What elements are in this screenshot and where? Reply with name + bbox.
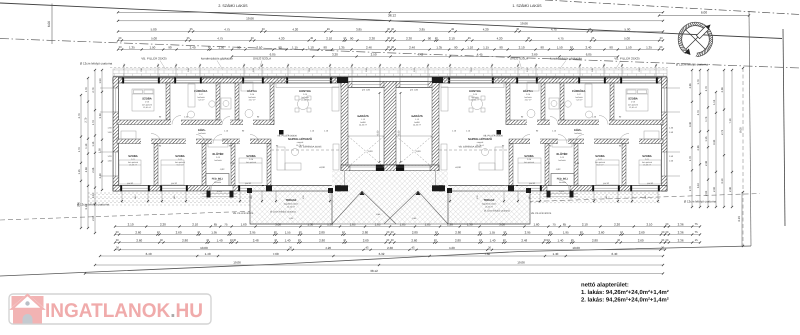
svg-text:SZOBA: SZOBA	[595, 155, 604, 158]
window jamb	[120, 185, 122, 191]
svg-text:75: 75	[552, 223, 556, 227]
pillar 20x20 left	[279, 130, 284, 135]
svg-text:2.36: 2.36	[705, 160, 708, 166]
svg-text:-0,325: -0,325	[558, 190, 565, 193]
svg-text:2.36: 2.36	[697, 145, 700, 151]
dimension chain row 4 partial	[231, 53, 619, 58]
svg-text:7,20 m²: 7,20 m²	[576, 99, 583, 102]
svg-text:pm 1,80: pm 1,80	[362, 89, 371, 92]
svg-text:-0,30: -0,30	[368, 150, 374, 153]
label uvegtegla right	[510, 57, 528, 74]
svg-text:pm 90: pm 90	[127, 182, 134, 185]
svg-text:90: 90	[428, 37, 432, 41]
svg-text:19.06: 19.06	[520, 21, 528, 25]
area text block	[581, 282, 669, 304]
svg-text:GARÁZS: GARÁZS	[411, 114, 423, 118]
site boundary dash-dot top right	[545, 0, 800, 15]
window dim stub bottom	[121, 191, 149, 203]
svg-text:2.30: 2.30	[369, 37, 375, 41]
pier	[432, 185, 443, 191]
furniture	[295, 108, 299, 112]
svg-text:30: 30	[387, 46, 390, 49]
svg-text:1. lakás: 94,26m²+24,0m²+1,4m²: 1. lakás: 94,26m²+24,0m²+1,4m²	[581, 289, 669, 296]
svg-text:5.00: 5.00	[151, 28, 157, 32]
svg-text:FED. BEJ.: FED. BEJ.	[557, 178, 569, 181]
bottom wall left nappali/terrace	[271, 186, 341, 192]
interior wall right wing	[509, 139, 663, 144]
svg-text:30: 30	[488, 247, 491, 250]
room H&#193;ZT.H. right	[523, 89, 534, 102]
outer wall top edge line	[113, 76, 667, 78]
svg-text:65: 65	[563, 223, 567, 227]
room KONYHA left	[299, 90, 311, 102]
bottom drain dashed line	[0, 194, 760, 221]
svg-text:GARÁZS: GARÁZS	[357, 114, 369, 118]
eaves dashed line	[110, 67, 668, 69]
svg-text:38.12: 38.12	[388, 14, 396, 18]
garage bottom wall left	[341, 165, 396, 171]
svg-text:pm 1,80: pm 1,80	[410, 89, 419, 92]
label VB. PILLER 25X25 left	[141, 57, 168, 74]
interior wall right wing	[432, 77, 439, 191]
furniture mirrored	[627, 90, 636, 94]
window top wall	[124, 78, 158, 83]
svg-text:1.60: 1.60	[241, 223, 247, 227]
driveway slope left	[332, 191, 396, 224]
svg-text:3,67 m²: 3,67 m²	[525, 99, 532, 102]
window dim stub bottom	[449, 191, 505, 203]
terrace door right	[450, 186, 504, 191]
svg-text:2.00: 2.00	[713, 186, 716, 192]
room K&#214;ZL. right	[574, 128, 582, 135]
svg-text:90: 90	[278, 46, 282, 50]
window jamb	[160, 185, 162, 191]
site boundary top	[0, 3, 782, 39]
pier	[328, 188, 333, 193]
door swing	[250, 135, 259, 144]
svg-text:45: 45	[327, 28, 330, 31]
terrace left	[250, 191, 332, 224]
svg-text:19.06: 19.06	[246, 16, 254, 20]
pavement area	[250, 186, 530, 224]
svg-text:30: 30	[527, 37, 530, 40]
svg-text:pm 90: pm 90	[603, 182, 610, 185]
svg-text:1.35: 1.35	[129, 46, 135, 50]
svg-text:90: 90	[350, 37, 354, 41]
furniture mirrored	[479, 163, 495, 170]
window jamb	[630, 185, 632, 191]
svg-text:KÖZL.: KÖZL.	[574, 128, 582, 132]
window top wall	[288, 78, 330, 83]
window bottom wall	[240, 186, 262, 191]
svg-text:10.00: 10.00	[200, 246, 208, 250]
window jamb	[186, 185, 188, 191]
interior wall left wing	[154, 144, 158, 186]
svg-text:30: 30	[118, 37, 121, 40]
window dim stub bottom	[239, 191, 263, 203]
door swing	[213, 135, 222, 144]
svg-text:2.20: 2.20	[160, 223, 166, 227]
outer wall top left wing	[113, 78, 341, 83]
window dim stub top	[517, 64, 537, 79]
svg-text:45: 45	[468, 37, 471, 40]
svg-text:2. SZÁMÚ LAKÁS: 2. SZÁMÚ LAKÁS	[218, 3, 248, 8]
furniture circle mirrored	[565, 101, 571, 107]
svg-text:4.20: 4.20	[292, 28, 298, 32]
svg-text:30: 30	[386, 239, 389, 242]
right boundary vertical	[749, 11, 751, 246]
svg-text:2.50: 2.50	[371, 53, 377, 57]
svg-text:TERASZ: TERASZ	[484, 199, 495, 202]
room GAR&#193;ZS right	[411, 114, 423, 127]
dimension 19.06 row	[117, 16, 664, 25]
window jamb	[516, 185, 518, 191]
svg-text:FED. BEJ.: FED. BEJ.	[212, 178, 224, 181]
svg-text:3.00: 3.00	[275, 223, 281, 227]
svg-text:1.10: 1.10	[85, 143, 88, 149]
furniture mirrored	[638, 90, 647, 94]
svg-text:90: 90	[541, 46, 545, 50]
svg-text:2.36: 2.36	[689, 83, 692, 89]
svg-text:lam.parkett: lam.parkett	[595, 161, 605, 164]
svg-text:SZOBA: SZOBA	[642, 155, 651, 158]
svg-text:1.95: 1.95	[563, 231, 569, 235]
svg-text:75: 75	[695, 231, 698, 234]
svg-text:2.80: 2.80	[592, 239, 598, 243]
svg-text:25: 25	[187, 37, 190, 40]
svg-text:30: 30	[262, 28, 265, 31]
window dim stub top	[287, 64, 331, 79]
entry door right	[547, 186, 570, 191]
north symbol	[678, 22, 712, 56]
svg-text:1.50: 1.50	[99, 78, 102, 84]
door opening	[222, 120, 230, 126]
svg-text:VB. GERENDA 30X45: VB. GERENDA 30X45	[459, 146, 483, 149]
garage window right	[400, 82, 428, 87]
svg-text:KONYHA: KONYHA	[469, 90, 481, 93]
wall window stub right	[667, 88, 680, 112]
svg-text:1.65: 1.65	[400, 223, 406, 227]
interior wall left wing	[117, 139, 271, 144]
svg-text:6.00: 6.00	[701, 11, 707, 15]
svg-text:4.20: 4.20	[325, 246, 331, 250]
furniture line mirrored	[596, 164, 619, 166]
svg-text:2.70: 2.70	[689, 186, 692, 192]
interior wall right wing	[509, 144, 513, 186]
svg-text:pm 90: pm 90	[171, 182, 178, 185]
garage ramp dashed box left	[348, 136, 384, 167]
svg-text:4.75: 4.75	[217, 37, 223, 41]
room F&#220;RD&#213;SZ. left	[194, 89, 208, 102]
label kondenzacios gazkazan right	[550, 57, 582, 79]
svg-text:Ø 12cm lefolyó csatorna: Ø 12cm lefolyó csatorna	[80, 62, 113, 66]
door swing	[172, 116, 181, 125]
svg-text:3.10: 3.10	[697, 183, 700, 189]
svg-text:3.10: 3.10	[78, 201, 81, 207]
svg-text:19.06: 19.06	[517, 261, 525, 265]
svg-text:2.80: 2.80	[182, 239, 188, 243]
svg-text:kerámia: kerámia	[214, 181, 222, 184]
window left wall	[113, 88, 118, 112]
terrace right	[448, 191, 530, 224]
svg-text:15,00 m²: 15,00 m²	[287, 206, 295, 209]
svg-text:VB. PILLÉR 25X25: VB. PILLÉR 25X25	[614, 57, 640, 61]
watermark box	[9, 294, 211, 324]
svg-text:3.30: 3.30	[689, 121, 692, 127]
door opening mirrored	[550, 120, 558, 126]
svg-text:30: 30	[116, 247, 119, 250]
svg-text:75: 75	[224, 223, 228, 227]
garage door right	[404, 165, 430, 170]
svg-text:nappali: nappali	[297, 141, 304, 144]
svg-text:90: 90	[168, 46, 172, 50]
window dim stub bottom	[517, 191, 541, 203]
furniture mirrored	[518, 158, 541, 183]
window top wall	[176, 78, 200, 83]
svg-text:15,00 m²: 15,00 m²	[485, 206, 493, 209]
svg-text:1.50: 1.50	[218, 46, 224, 50]
svg-text:2.46: 2.46	[366, 46, 372, 50]
furniture mirrored	[552, 140, 572, 147]
svg-text:2.80: 2.80	[455, 239, 461, 243]
svg-text:kondenzációs gázkazán: kondenzációs gázkazán	[550, 57, 582, 61]
svg-text:kerámia: kerámia	[214, 159, 222, 162]
svg-text:1.50: 1.50	[99, 148, 102, 154]
window dim stub top	[243, 64, 263, 79]
window right wall	[662, 88, 667, 112]
furniture	[121, 131, 136, 139]
window bottom wall mirrored	[632, 186, 658, 191]
svg-text:30: 30	[386, 231, 389, 234]
window dim stub top	[621, 64, 657, 79]
svg-text:2.20: 2.20	[614, 223, 620, 227]
window dim stub bottom	[161, 191, 187, 203]
room SZOBA left	[142, 98, 152, 110]
svg-text:30: 30	[391, 46, 394, 49]
svg-text:1.50: 1.50	[149, 46, 155, 50]
room GAR&#193;ZS left	[357, 114, 369, 127]
interior wall right wing	[506, 120, 663, 125]
furniture circle mirrored	[472, 99, 483, 110]
svg-text:1.10: 1.10	[467, 46, 473, 50]
interior wall left wing	[216, 83, 220, 120]
svg-text:30: 30	[391, 239, 394, 242]
furniture mirrored	[495, 147, 503, 170]
svg-text:2.30: 2.30	[406, 37, 412, 41]
svg-text:beálló: beálló	[360, 121, 366, 124]
svg-text:75: 75	[695, 223, 698, 226]
svg-text:±0,00: ±0,00	[319, 166, 325, 169]
svg-text:1.30: 1.30	[327, 223, 333, 227]
svg-text:VB. GERENDA 30X45: VB. GERENDA 30X45	[299, 146, 323, 149]
svg-text:2.10: 2.10	[326, 37, 332, 41]
svg-text:19.06: 19.06	[233, 261, 241, 265]
right 4.16 dimension	[737, 192, 742, 246]
room SZOBA left	[175, 155, 185, 167]
svg-text:ELÕTÉR: ELÕTÉR	[557, 152, 568, 156]
svg-text:Ø 12cm lefolyó csatorna: Ø 12cm lefolyó csatorna	[484, 210, 510, 213]
window jamb	[620, 77, 622, 83]
svg-text:2.70: 2.70	[705, 86, 708, 92]
svg-text:25: 25	[190, 28, 193, 31]
svg-text:1.60: 1.60	[533, 223, 539, 227]
furniture mirrored	[644, 131, 659, 139]
svg-text:7.60: 7.60	[484, 252, 490, 256]
svg-text:2.60: 2.60	[638, 239, 644, 243]
interior wall left wing	[235, 83, 239, 120]
interior wall left wing	[267, 144, 271, 186]
furniture	[333, 144, 339, 170]
svg-text:7.60: 7.60	[273, 252, 279, 256]
window left wall	[113, 152, 118, 176]
svg-text:VB. PILLÉR 30X25: VB. PILLÉR 30X25	[531, 211, 552, 215]
window jamb	[656, 77, 658, 83]
furniture mirrored	[626, 89, 648, 111]
furniture mirrored	[481, 96, 485, 100]
garage pier right	[396, 165, 404, 173]
svg-text:fagyálló burkolat: fagyálló burkolat	[284, 203, 299, 206]
furniture mirrored	[527, 82, 539, 91]
furniture line mirrored	[626, 93, 648, 95]
svg-text:kerámia: kerámia	[574, 132, 582, 135]
far right boundary	[783, 29, 785, 226]
svg-text:4.20: 4.20	[497, 37, 503, 41]
furniture	[241, 82, 253, 91]
svg-text:beálló: beálló	[414, 121, 420, 124]
svg-text:VB. PILLÉR 20X20: VB. PILLÉR 20X20	[277, 135, 297, 138]
room KONYHA right	[469, 90, 481, 102]
furniture	[307, 108, 311, 112]
dimension chain row 2	[117, 37, 664, 42]
door opening mirrored	[558, 139, 568, 145]
svg-text:2.60: 2.60	[135, 231, 141, 235]
interior wall right wing	[574, 144, 578, 186]
svg-text:1.35: 1.35	[646, 46, 652, 50]
svg-text:5.00: 5.00	[624, 37, 630, 41]
fed bej porch right	[543, 174, 578, 197]
bottom wall right nappali/terrace	[439, 186, 509, 192]
window bottom wall mirrored	[518, 186, 540, 191]
window dim stub top	[123, 64, 159, 79]
window jamb	[592, 185, 594, 191]
svg-text:2.60: 2.60	[639, 231, 645, 235]
svg-text:2.00: 2.00	[92, 215, 95, 221]
svg-text:±0,00: ±0,00	[455, 166, 461, 169]
furniture mirrored	[596, 160, 619, 185]
window jamb	[242, 77, 244, 83]
bottom wall left wing	[113, 186, 271, 192]
interior wall left wing	[231, 144, 235, 186]
pier	[335, 185, 341, 191]
interior wall right wing	[560, 83, 564, 120]
svg-text:24,00 m²: 24,00 m²	[359, 124, 367, 127]
pier	[508, 185, 514, 191]
window jamb	[174, 77, 176, 83]
svg-text:ELÕTÉR: ELÕTÉR	[213, 152, 224, 156]
svg-text:1.35: 1.35	[436, 46, 442, 50]
svg-text:1.73: 1.73	[705, 116, 708, 122]
svg-text:3,67 m²: 3,67 m²	[249, 99, 256, 102]
window jamb	[578, 77, 580, 83]
svg-text:1. SZÁMÚ LAKÁS: 1. SZÁMÚ LAKÁS	[512, 3, 542, 8]
svg-text:kerámia: kerámia	[248, 96, 256, 99]
svg-text:2.36: 2.36	[678, 239, 684, 243]
svg-text:2.10: 2.10	[256, 46, 262, 50]
svg-text:INGATLANOK.HU: INGATLANOK.HU	[45, 300, 203, 322]
svg-text:2.10: 2.10	[646, 223, 652, 227]
room SZOBA right	[642, 155, 652, 167]
svg-text:SZOBA: SZOBA	[628, 98, 637, 101]
svg-text:3.10: 3.10	[721, 178, 724, 184]
window jamb	[238, 185, 240, 191]
svg-text:2.40: 2.40	[585, 46, 591, 50]
svg-text:45: 45	[310, 37, 313, 40]
svg-text:2.73: 2.73	[721, 129, 724, 135]
svg-text:90: 90	[324, 46, 328, 50]
label uvegtegla left	[253, 57, 271, 74]
wall window stub left	[100, 88, 113, 112]
room NAPPALI+&#201;TKEZ&#213; left	[288, 137, 312, 147]
svg-text:13,61 m²: 13,61 m²	[143, 106, 151, 109]
furniture	[144, 90, 153, 94]
window dim stub bottom	[593, 191, 619, 203]
stipple left of building	[88, 192, 250, 206]
door swing	[211, 180, 221, 190]
svg-text:FÜRDÕSZ.: FÜRDÕSZ.	[194, 89, 208, 93]
beam dashed right	[439, 149, 509, 151]
window jamb	[604, 77, 606, 83]
room SZOBA right	[628, 98, 638, 110]
furniture mirrored	[469, 96, 473, 100]
svg-text:2.46: 2.46	[409, 46, 415, 50]
interior wall left wing	[117, 120, 274, 125]
svg-text:90: 90	[237, 46, 241, 50]
window top wall	[244, 78, 262, 83]
entry door left	[210, 186, 233, 191]
svg-text:1.10: 1.10	[308, 46, 314, 50]
door swing	[222, 117, 230, 125]
svg-text:90: 90	[454, 46, 458, 50]
window top wall mirrored	[580, 78, 604, 83]
window dim stub top	[175, 64, 201, 79]
svg-text:2.36: 2.36	[85, 167, 88, 173]
overall dimension 38.12	[117, 11, 664, 17]
svg-text:30: 30	[251, 37, 254, 40]
svg-text:13,61 m²: 13,61 m²	[629, 106, 637, 109]
svg-text:30: 30	[116, 231, 119, 234]
furniture circle mirrored	[551, 101, 557, 107]
svg-text:kerámia: kerámia	[558, 159, 566, 162]
room SZOBA left	[128, 155, 138, 167]
outer wall right	[662, 77, 668, 191]
svg-text:SZOBA: SZOBA	[246, 155, 255, 158]
svg-text:-0,325: -0,325	[216, 190, 223, 193]
svg-text:1.15: 1.15	[713, 99, 716, 105]
svg-text:2.70: 2.70	[92, 87, 95, 93]
furniture circle	[209, 101, 215, 107]
door opening	[212, 139, 222, 145]
window jamb	[262, 77, 264, 83]
svg-text:SZOBA: SZOBA	[175, 155, 184, 158]
bottom wall right wing	[509, 186, 667, 192]
dimension chain row 1	[117, 28, 664, 33]
svg-text:30: 30	[661, 239, 664, 242]
svg-text:30: 30	[116, 239, 119, 242]
svg-text:30: 30	[660, 37, 663, 40]
window dim stub top	[449, 64, 493, 79]
svg-text:1.70: 1.70	[689, 156, 692, 162]
room K&#214;ZL. left	[198, 128, 206, 135]
